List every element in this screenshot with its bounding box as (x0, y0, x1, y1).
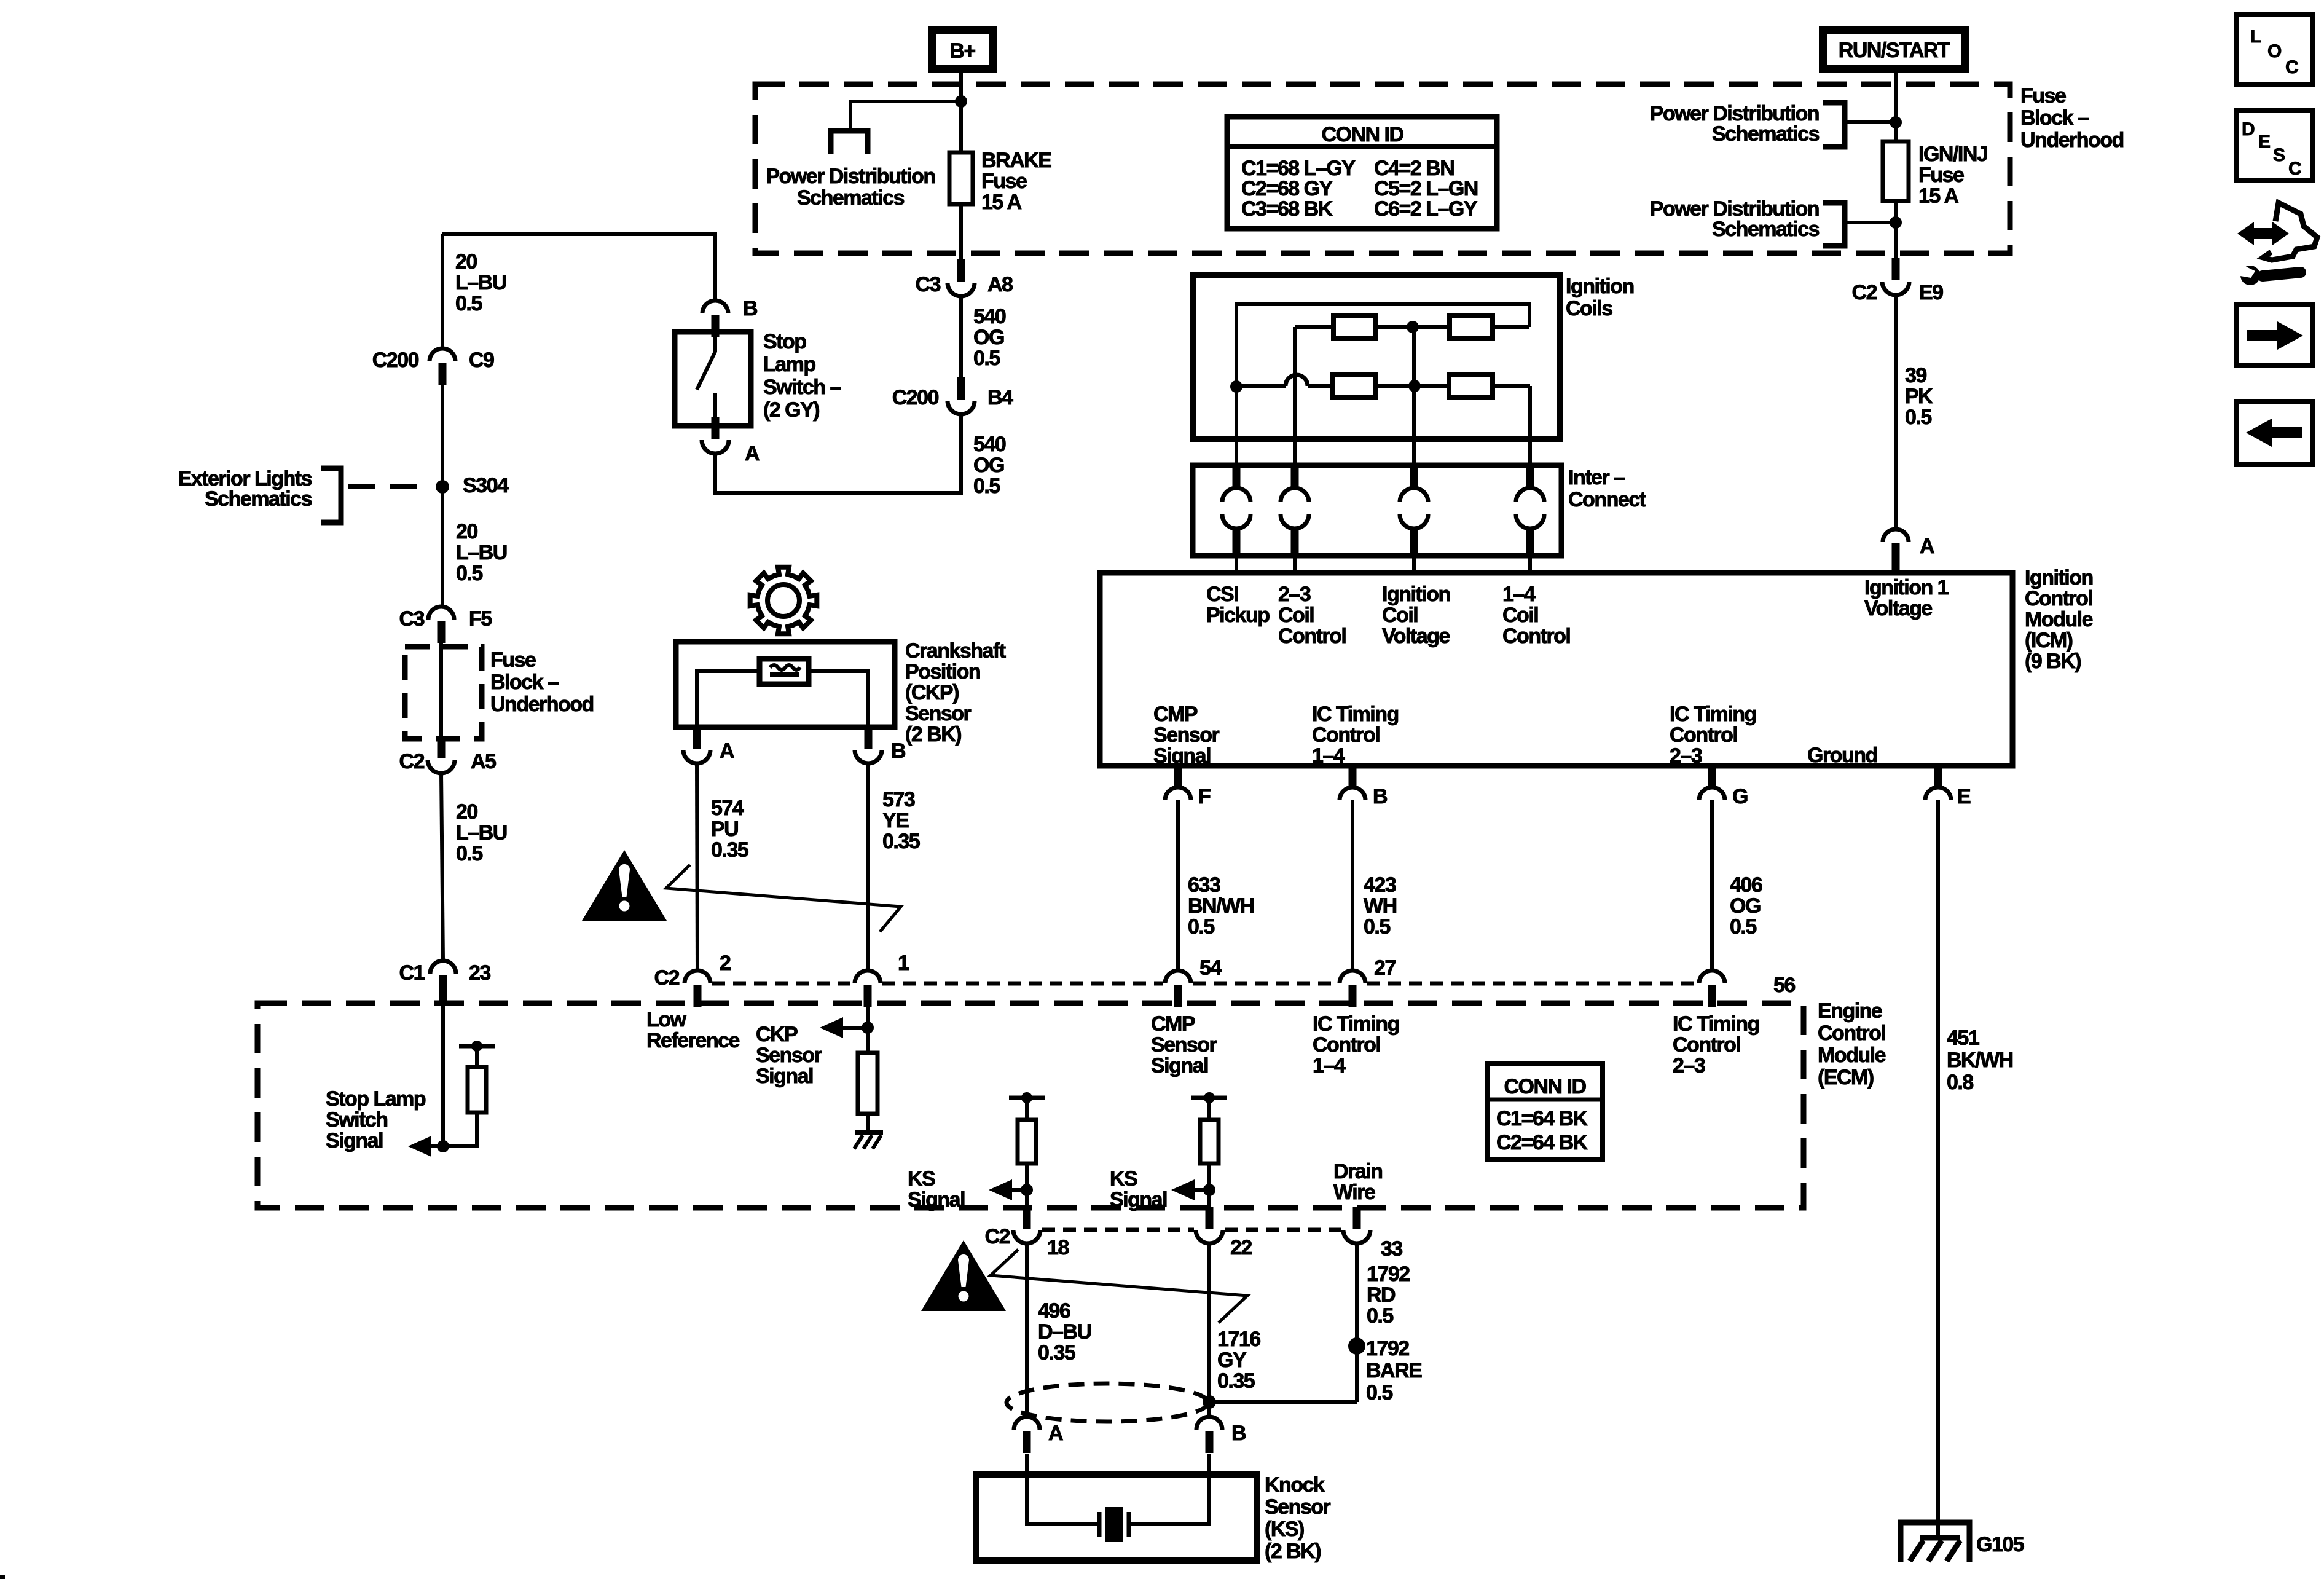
connector ICM pin B (1340, 766, 1365, 800)
wire to bracket (lower right) (1846, 221, 1896, 224)
coil row1 right segment (1493, 325, 1529, 329)
coil primary 4 (1449, 374, 1493, 398)
svg-text:Ground: Ground (1807, 744, 1877, 767)
splice on drain wire (1348, 1337, 1365, 1355)
wire junction to arrow (CKP) (843, 1026, 868, 1030)
ground symbol (ECM internal) (854, 1133, 883, 1149)
svg-text:C3: C3 (399, 607, 425, 631)
connector ICM pin G (1699, 766, 1725, 800)
interconnect pair (csi) (1222, 465, 1250, 556)
svg-text:E: E (1957, 785, 1971, 808)
connector ICM pin A (1883, 529, 1909, 574)
svg-text:18: 18 (1047, 1236, 1069, 1259)
icon DESC box (2237, 111, 2312, 181)
connector CKP pin B (855, 726, 882, 763)
wire 574 PU (697, 763, 697, 971)
svg-text:S304: S304 (463, 474, 509, 497)
connector C2 pin 2 (685, 971, 710, 1007)
svg-text:B+: B+ (949, 39, 975, 63)
dot on termination bar (471, 1041, 482, 1052)
icon LOC box (2237, 14, 2312, 84)
off-page bracket power distribution (upper right) (1823, 103, 1845, 147)
junction KS1 signal (1021, 1184, 1033, 1196)
svg-text:G105: G105 (1976, 1533, 2024, 1556)
wire horizontal to stop lamp switch (442, 234, 715, 301)
svg-text:B: B (891, 739, 906, 763)
junction KS2 signal (1203, 1184, 1215, 1196)
junction coil row2 mid (1408, 380, 1421, 392)
wire 451 BK/WH (1936, 800, 1940, 1522)
svg-text:C9: C9 (469, 348, 494, 372)
connector stop lamp switch pin A (702, 417, 729, 454)
warning triangle (KS) (921, 1240, 1006, 1311)
CKP inner wire left (697, 671, 760, 727)
dashed leader to S304 (348, 484, 427, 489)
splice S304 (436, 480, 449, 494)
coil primary 1 (1333, 315, 1375, 339)
wire pin1 to CKP branch (866, 998, 870, 1053)
knock inner wire left (1027, 1475, 1099, 1524)
coil row1 mid segment (1375, 325, 1450, 329)
junction CKP sensor signal (862, 1022, 874, 1034)
svg-text:C3: C3 (916, 273, 941, 296)
wire junction to arrow (431, 1144, 443, 1148)
ignition coils box (1193, 275, 1560, 439)
connector CKP pin A (683, 726, 710, 763)
interconnect pair (coil voltage) (1400, 465, 1428, 556)
svg-text:C2: C2 (654, 966, 680, 990)
fuse BRAKE 15A (949, 152, 973, 204)
svg-text:56: 56 (1773, 974, 1795, 997)
svg-text:O: O (2267, 41, 2282, 61)
wire A8 to B4 (959, 296, 963, 379)
connector C200 pin B4 (948, 377, 975, 414)
switch fixed contact (713, 332, 717, 352)
coil row2 segment to resistor (1308, 384, 1332, 388)
svg-text:C: C (2285, 57, 2298, 77)
knock inner wire right (1129, 1475, 1209, 1524)
svg-text:A8: A8 (987, 273, 1013, 296)
wire through fuse block (439, 643, 443, 738)
wire 496 D-BU (1025, 1243, 1029, 1417)
power node RUN/START (1819, 26, 1969, 73)
arrow KS1 signal (989, 1179, 1012, 1200)
KS2 resistor top lead (1207, 1098, 1211, 1120)
coil row2 right segment (1493, 384, 1530, 388)
callout leader (CKP warning) (666, 865, 901, 932)
svg-text:E9: E9 (1919, 281, 1943, 304)
coil mid riser (1412, 327, 1416, 386)
wire junction to arrow (KS1) (1012, 1188, 1027, 1192)
wire left vertical to C200-C9 (441, 234, 444, 350)
crankshaft position CKP sensor box (676, 642, 895, 727)
wire 406 OG (1710, 800, 1714, 971)
wire drain to KS shield (1209, 1400, 1357, 1404)
connector C200 pin C9 (430, 348, 455, 385)
svg-text:A: A (745, 442, 760, 465)
svg-text:33: 33 (1381, 1237, 1402, 1261)
wire to bracket (upper right) (1846, 120, 1896, 124)
svg-text:CONN ID: CONN ID (1321, 123, 1403, 146)
csi pickup drop (1235, 387, 1238, 465)
svg-text:1: 1 (898, 951, 909, 975)
svg-text:CONN ID: CONN ID (1504, 1075, 1586, 1098)
engine control module dashed box (257, 1003, 1804, 1208)
svg-text:A: A (1048, 1422, 1063, 1445)
icon forward arrow box (2237, 305, 2312, 366)
svg-text:B: B (743, 297, 758, 320)
KS2 resistor bottom lead (1207, 1164, 1211, 1208)
resistor (KS1) (1018, 1120, 1036, 1164)
junction shield to GY wire (1203, 1395, 1216, 1409)
arrow stop lamp switch signal (408, 1136, 431, 1157)
wire RUN/START to IGN fuse (1894, 73, 1898, 141)
connector knock pin B (1196, 1417, 1222, 1453)
wire knock A lead (1025, 1454, 1029, 1475)
connector pin 27 (1340, 971, 1365, 1007)
svg-text:C200: C200 (372, 348, 419, 372)
wire brake fuse to C3-A8 (959, 204, 963, 259)
ignition coil voltage drop (1412, 386, 1416, 465)
wire interconnect to ICM (csi) (1235, 556, 1238, 573)
connector C3 pin A8 (948, 259, 975, 296)
switch lower contact (713, 393, 717, 426)
page corner mark (0, 1575, 5, 1579)
knock piezo element (1099, 1507, 1129, 1542)
wire 39 PK lower (1894, 379, 1898, 529)
svg-text:F5: F5 (469, 607, 492, 631)
KS1 resistor top lead (1025, 1098, 1029, 1120)
junction at B+ branch (955, 95, 967, 108)
termination bar (KS1) (1009, 1096, 1045, 1100)
svg-text:27: 27 (1374, 956, 1396, 980)
junction at IGN fuse top (1890, 116, 1902, 128)
knock sensor box (976, 1475, 1257, 1561)
CONN ID table (underhood) (1227, 117, 1497, 229)
coil inner top rail (1236, 304, 1529, 387)
resistor (KS2) (1200, 1120, 1219, 1164)
svg-text:C200: C200 (892, 386, 939, 409)
CKP resistor to ground (866, 1114, 870, 1133)
svg-text:23: 23 (469, 961, 490, 985)
coil primary 3 (1332, 374, 1375, 398)
wire S304 to C3-F5 (441, 487, 444, 607)
connector ICM pin E (1925, 766, 1951, 800)
wire branch to power distribution bracket (850, 101, 961, 131)
svg-text:C: C (2288, 159, 2301, 179)
wire into G105 (1936, 1522, 1940, 1538)
icon schematic navigation (wrench and arrows) (2237, 203, 2317, 285)
wire 1716 GY (1207, 1243, 1211, 1417)
connector stop lamp switch pin B (702, 301, 728, 337)
wire interconnect to ICM (coil voltage) (1412, 556, 1416, 573)
termination bar (KS2) (1191, 1096, 1227, 1100)
svg-text:B: B (1231, 1422, 1246, 1445)
wire 1792 RD (1355, 1243, 1359, 1402)
svg-text:G: G (1732, 785, 1748, 808)
wire C9 to S304 (441, 385, 444, 487)
warning triangle (CKP) (582, 850, 667, 921)
svg-text:54: 54 (1199, 956, 1222, 980)
svg-text:S: S (2273, 145, 2285, 165)
off-page bracket exterior lights (321, 468, 341, 522)
stop lamp switch box (675, 332, 751, 426)
connector pin 22 (1196, 1207, 1223, 1243)
dot on termination bar (KS1) (1021, 1092, 1032, 1103)
svg-text:C1=64 BKC2=64 BK: C1=64 BKC2=64 BK (1496, 1107, 1588, 1154)
wire B+ to brake fuse (959, 73, 963, 152)
coil row2 mid segment (1375, 384, 1449, 388)
wire hop (row2 over csi riser) (1286, 375, 1308, 386)
connector pin 1 (855, 971, 881, 1007)
connector pin 33 (1343, 1207, 1370, 1243)
fuse block underhood dashed box (left) (405, 647, 482, 739)
off-page bracket power distribution (lower right) (1823, 203, 1845, 246)
ground G105 (1901, 1522, 1969, 1562)
connector pin 54 (1165, 971, 1191, 1007)
junction at IGN fuse bottom (1890, 216, 1902, 229)
gear icon (750, 567, 817, 634)
callout leader (KS warning) (991, 1250, 1247, 1323)
CKP sensing element (760, 659, 809, 684)
svg-text:22: 22 (1230, 1236, 1252, 1259)
off-page bracket power distribution (left) (831, 131, 868, 154)
dotted connector row (knock) (1042, 1228, 1341, 1232)
svg-text:C2: C2 (1852, 281, 1877, 304)
connector knock pin A (1014, 1417, 1040, 1453)
svg-text:RUN/START: RUN/START (1839, 39, 1950, 62)
svg-text:B4: B4 (987, 386, 1013, 409)
wire 573 YE (868, 763, 868, 971)
dotted connector row (ECM top) (712, 982, 1697, 986)
coil row1 left segment (1295, 325, 1333, 329)
wire knock B lead (1207, 1454, 1211, 1475)
fuse block underhood dashed box (top) (755, 84, 2010, 253)
junction coil row1 (1407, 321, 1419, 333)
junction coil row2 left (1230, 380, 1242, 393)
wire 39 PK upper (1894, 296, 1898, 379)
icon back arrow box (2237, 401, 2312, 464)
wire junction to arrow (KS2) (1195, 1188, 1209, 1192)
coil 1-4 drop (1528, 386, 1532, 465)
interconnect pair (coil 2-3) (1281, 465, 1309, 556)
KS1 resistor bottom lead (1025, 1164, 1029, 1208)
connector pin 56 (1699, 971, 1725, 1007)
shield ellipse (dashed) (1007, 1384, 1208, 1422)
connector C3 pin F5 (428, 607, 454, 643)
connector C2 pin 18 (1013, 1207, 1040, 1243)
dot on termination bar (KS2) (1204, 1092, 1215, 1103)
connector C2 pin A5 (428, 736, 455, 773)
coil primary 2 (1450, 315, 1493, 339)
wire junction to pullup resistor (443, 1112, 477, 1146)
svg-text:B: B (1373, 785, 1388, 808)
coil row2 left segment (1236, 384, 1286, 388)
svg-text:D: D (2242, 119, 2255, 140)
resistor (stop lamp pullup) (468, 1067, 486, 1112)
coil 2-3 drop (1293, 327, 1297, 465)
CONN ID table (ECM) (1487, 1064, 1603, 1159)
svg-text:A: A (720, 739, 734, 763)
wire interconnect to ICM (coil 2-3) (1293, 556, 1297, 573)
resistor (CKP) (858, 1053, 877, 1114)
svg-text:L: L (2250, 26, 2261, 47)
arrow KS2 signal (1171, 1179, 1195, 1200)
wire C1-23 into ECM (441, 998, 445, 1146)
ignition control module box (1100, 573, 2012, 766)
interconnect pair (coil 1-4) (1516, 465, 1544, 556)
pullup termination bar (459, 1044, 495, 1049)
connector ICM pin F (1165, 766, 1191, 800)
svg-text:E: E (2258, 132, 2270, 152)
svg-text:F: F (1198, 785, 1211, 808)
connector C1 pin 23 (430, 961, 456, 1004)
wire A5 to C1-23 (441, 773, 443, 961)
wire 633 BN/WH (1176, 800, 1180, 971)
CKP inner wire right (809, 671, 868, 727)
inter-connect box (1193, 465, 1561, 556)
svg-text:C2: C2 (985, 1225, 1010, 1248)
wire interconnect to ICM (coil 1-4) (1528, 556, 1532, 573)
arrow CKP sensor signal (820, 1017, 843, 1038)
power node B+ (928, 26, 997, 73)
wire stop lamp A to C200-B4 (715, 414, 961, 493)
svg-text:A: A (1920, 535, 1934, 558)
wire IGN fuse to C2-E9 (1894, 201, 1898, 259)
connector C2 pin E9 (1882, 258, 1909, 295)
switch blade (697, 352, 715, 390)
wire 423 WH (1351, 800, 1354, 971)
fuse IGN/INJ 15A (1883, 141, 1909, 201)
pullup resistor top lead (475, 1046, 479, 1067)
svg-text:A5: A5 (471, 750, 496, 773)
junction stop lamp signal (437, 1140, 449, 1152)
svg-text:C2: C2 (399, 750, 425, 773)
svg-text:C1: C1 (399, 961, 425, 985)
svg-text:2: 2 (720, 951, 731, 975)
